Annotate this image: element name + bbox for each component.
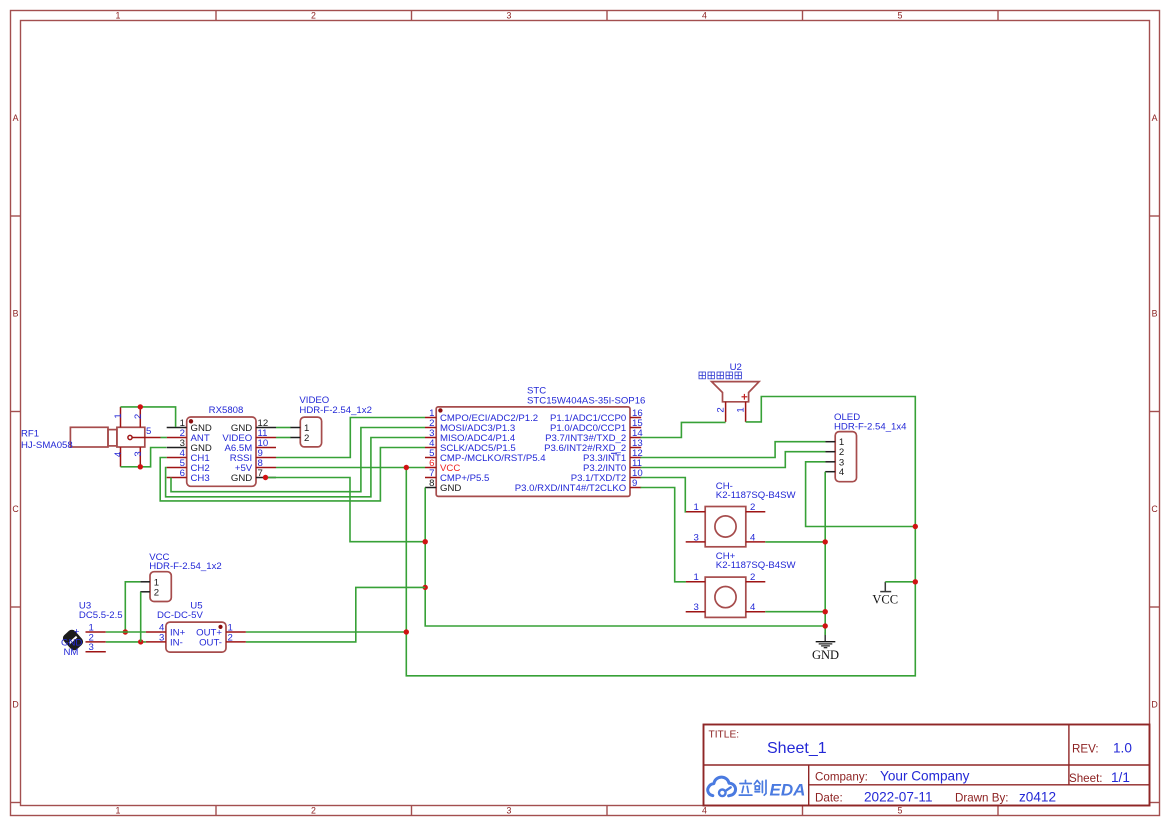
CH- pin 4 bbox=[746, 532, 766, 543]
wire net VCC U3 to U5 IN+ bbox=[106, 631, 146, 633]
svg-text:3: 3 bbox=[159, 632, 164, 643]
wire net CHUP from STC pin9 bbox=[641, 488, 686, 582]
wire net VCC symbol branch bbox=[885, 581, 915, 583]
svg-text:2: 2 bbox=[304, 433, 309, 444]
IC U1 STC15W404AS-35I-SOP16 bbox=[425, 386, 645, 497]
wire net GND VCC-HDR pin2 branch bbox=[140, 592, 142, 642]
RX5808 pin 4 CH1 bbox=[167, 448, 210, 464]
junction GND at 541 bbox=[423, 539, 428, 544]
svg-text:5: 5 bbox=[898, 11, 903, 21]
CH+ pin 1 bbox=[686, 572, 706, 583]
svg-text:4: 4 bbox=[702, 11, 707, 21]
svg-text:GND: GND bbox=[440, 483, 461, 494]
junction VCC OLED branch bbox=[913, 524, 918, 529]
svg-text:3: 3 bbox=[133, 451, 144, 456]
wire net GND branch to U5 OUT- bbox=[246, 587, 425, 642]
wire net BUZZER from STC pin14 bbox=[641, 422, 726, 437]
wire net VCC HDR pin1 branch bbox=[125, 582, 140, 632]
svg-text:DC5.5-2.5: DC5.5-2.5 bbox=[79, 610, 123, 621]
STC pin 7 bbox=[425, 468, 489, 484]
module U5 DC-DC-5V bbox=[146, 601, 246, 653]
wire net OLED2 from STC pin11 bbox=[641, 452, 826, 468]
svg-text:1: 1 bbox=[694, 572, 699, 583]
wire net GND RX5808 pin7 bbox=[266, 478, 426, 542]
svg-text:1: 1 bbox=[113, 413, 124, 418]
STC pin 3 bbox=[425, 428, 516, 444]
svg-text:GND: GND bbox=[812, 648, 839, 662]
svg-text:P3.0/RXD/INT4#/T2CLKO: P3.0/RXD/INT4#/T2CLKO bbox=[515, 483, 626, 494]
buzzer polarity + bbox=[742, 394, 748, 400]
wire net VCC main bbox=[276, 397, 915, 676]
wire net GND CH- pin4 bbox=[765, 541, 825, 543]
switch CH- K2-1187SQ-B4SW bbox=[686, 481, 797, 547]
title block bbox=[704, 725, 1150, 806]
svg-text:HDR-F-2.54_1x2: HDR-F-2.54_1x2 bbox=[149, 561, 222, 572]
svg-text:+: + bbox=[74, 626, 80, 637]
svg-text:A: A bbox=[13, 113, 19, 123]
wire net VCC U5 OUT+ bbox=[246, 631, 406, 633]
junction RF bottom bbox=[138, 464, 143, 469]
connector OLED HDR-F-2.54_1x4 bbox=[825, 412, 907, 482]
wire net GND-RF bottom bbox=[121, 448, 167, 467]
svg-text:RF1: RF1 bbox=[21, 429, 39, 440]
wire net VCC OLED pin3 branch bbox=[806, 462, 916, 527]
CH- pin 2 bbox=[746, 502, 766, 513]
U3 pin 3 NM bbox=[64, 642, 106, 658]
junction VCC at STC pin6 bbox=[404, 465, 409, 470]
RX5808 pin 11 VIDEO bbox=[222, 428, 276, 444]
svg-text:4: 4 bbox=[750, 532, 756, 543]
RX5808 pin 2 ANT bbox=[167, 428, 210, 444]
VIDEO pin 1 bbox=[290, 423, 309, 434]
VCC HDR pin 2 bbox=[140, 587, 159, 598]
STC pin 14 bbox=[545, 428, 643, 444]
junction GND at symbol bbox=[823, 623, 828, 628]
svg-text:STC15W404AS-35I-SOP16: STC15W404AS-35I-SOP16 bbox=[527, 396, 645, 407]
wire net CHDN from STC pin10 bbox=[641, 478, 686, 512]
STC pin 2 bbox=[425, 418, 515, 434]
svg-text:DC-DC-5V: DC-DC-5V bbox=[157, 610, 203, 621]
svg-text:5: 5 bbox=[146, 426, 151, 437]
RF1 pin 4 bbox=[113, 447, 124, 467]
wire net GND STC pin8 vertical bbox=[425, 488, 825, 627]
wire net GND CH+ pin4 bbox=[765, 611, 825, 613]
RF1 pin 3 bbox=[133, 447, 144, 467]
svg-text:2: 2 bbox=[311, 806, 316, 816]
RX5808 pin 12 GND bbox=[231, 418, 276, 434]
switch CH+ K2-1187SQ-B4SW bbox=[686, 551, 797, 617]
RX5808 pin 9 RSSI bbox=[230, 448, 276, 464]
junction GND U3 IN- bbox=[138, 639, 143, 644]
svg-text:4: 4 bbox=[113, 451, 124, 457]
svg-text:Your Company: Your Company bbox=[880, 769, 970, 784]
RX5808 pin 7 GND bbox=[231, 468, 276, 484]
OLED pin 1 bbox=[825, 437, 844, 448]
RX5808 pin 8 +5V bbox=[235, 458, 276, 474]
wire net GND video bbox=[276, 427, 291, 429]
CH- pin 1 bbox=[686, 502, 706, 513]
buzzer CJK name bbox=[699, 372, 741, 379]
svg-text:2: 2 bbox=[750, 572, 755, 583]
svg-text:2: 2 bbox=[133, 414, 144, 419]
svg-text:1: 1 bbox=[694, 502, 699, 513]
power jack U3 DC5.5-2.5 bbox=[61, 601, 123, 659]
CH+ pin 2 bbox=[746, 572, 766, 583]
svg-text:Date:: Date: bbox=[815, 792, 843, 805]
RX5808 pin 3 GND bbox=[167, 438, 212, 454]
STC pin 11 bbox=[583, 458, 642, 474]
svg-text:C: C bbox=[1151, 504, 1158, 514]
buzzer pin 2 bbox=[716, 402, 727, 422]
svg-text:9: 9 bbox=[632, 478, 637, 489]
ground symbol GND bbox=[812, 632, 839, 662]
svg-text:6: 6 bbox=[180, 468, 185, 479]
svg-text:D: D bbox=[1151, 700, 1157, 710]
junction VCC symbol branch bbox=[913, 579, 918, 584]
RX5808 pin 5 CH2 bbox=[167, 458, 210, 474]
OLED pin 2 bbox=[825, 447, 844, 458]
wire net ANT bbox=[161, 437, 167, 439]
U5 pin 1 OUT+ bbox=[196, 623, 246, 639]
svg-text:B: B bbox=[1152, 309, 1158, 319]
OLED pin 3 bbox=[825, 457, 844, 468]
svg-text:HDR-F-2.54_1x2: HDR-F-2.54_1x2 bbox=[299, 405, 372, 416]
svg-text:3: 3 bbox=[89, 642, 94, 653]
svg-text:D: D bbox=[12, 700, 18, 710]
VCC HDR pin 1 bbox=[140, 577, 159, 588]
svg-text:K2-1187SQ-B4SW: K2-1187SQ-B4SW bbox=[716, 490, 797, 501]
svg-text:z0412: z0412 bbox=[1019, 790, 1056, 805]
svg-text:3: 3 bbox=[694, 532, 699, 543]
svg-text:REV:: REV: bbox=[1072, 743, 1099, 756]
svg-text:1: 1 bbox=[116, 806, 121, 816]
OLED pin 4 bbox=[825, 467, 845, 478]
U5 pin 4 IN+ bbox=[146, 623, 186, 639]
wire net GND U3 to U5 IN- bbox=[106, 641, 146, 643]
svg-text:1: 1 bbox=[116, 11, 121, 21]
svg-text:Sheet:: Sheet: bbox=[1069, 772, 1103, 785]
svg-text:Drawn By:: Drawn By: bbox=[955, 792, 1008, 805]
U3 pin 2 GND bbox=[61, 632, 106, 648]
svg-text:4: 4 bbox=[702, 806, 707, 816]
svg-text:3: 3 bbox=[507, 11, 512, 21]
svg-text:HDR-F-2.54_1x4: HDR-F-2.54_1x4 bbox=[834, 421, 907, 432]
RF1 pin 5 bbox=[128, 426, 161, 440]
svg-text:IN-: IN- bbox=[170, 637, 183, 648]
RX5808 pin 1 GND bbox=[167, 418, 212, 434]
connector VIDEO HDR-F-2.54_1x2 bbox=[290, 395, 372, 447]
svg-text:2: 2 bbox=[750, 502, 755, 513]
svg-text:7: 7 bbox=[258, 468, 263, 479]
CH+ pin 3 bbox=[686, 602, 706, 613]
svg-text:C: C bbox=[12, 504, 19, 514]
svg-text:CH3: CH3 bbox=[191, 473, 210, 484]
svg-text:OUT-: OUT- bbox=[199, 637, 222, 648]
junction VCC HDR pin1 bbox=[123, 629, 128, 634]
wire net OLED1 from STC pin12 bbox=[641, 442, 826, 458]
svg-text:2022-07-11: 2022-07-11 bbox=[864, 790, 933, 805]
svg-text:3: 3 bbox=[507, 806, 512, 816]
buzzer U2 SMD bbox=[699, 362, 759, 422]
svg-text:NM: NM bbox=[64, 647, 79, 658]
RX5808 pin 10 A6.5M bbox=[224, 438, 276, 454]
svg-text:VCC: VCC bbox=[872, 592, 898, 606]
STC pin 16 bbox=[550, 408, 643, 424]
svg-text:Sheet_1: Sheet_1 bbox=[767, 740, 827, 757]
svg-text:1.0: 1.0 bbox=[1113, 741, 1132, 756]
svg-text:TITLE:: TITLE: bbox=[709, 730, 740, 741]
svg-text:2: 2 bbox=[228, 632, 233, 643]
wire net VIDEO bbox=[276, 437, 291, 439]
wire net RSSI to STC pin1 bbox=[276, 418, 425, 458]
svg-text:5: 5 bbox=[898, 806, 903, 816]
svg-text:B: B bbox=[13, 309, 19, 319]
junction GND CH- pin4 bbox=[823, 539, 828, 544]
STC pin 9 bbox=[515, 478, 641, 494]
svg-text:1: 1 bbox=[736, 407, 747, 412]
junction GND at 587 bbox=[423, 585, 428, 590]
svg-text:HJ-SMA058: HJ-SMA058 bbox=[21, 440, 73, 451]
RF1 pin 1 bbox=[113, 407, 124, 427]
buzzer pin 1 bbox=[736, 402, 747, 422]
wire net CH1 to STC pin4 bbox=[160, 448, 425, 501]
svg-text:Company:: Company: bbox=[815, 771, 868, 784]
junction RF top bbox=[138, 404, 143, 409]
svg-text:1/1: 1/1 bbox=[1111, 770, 1130, 785]
STC pin 13 bbox=[544, 438, 643, 454]
connector VCC HDR-F-2.54_1x2 bbox=[140, 552, 221, 602]
svg-text:4: 4 bbox=[750, 602, 756, 613]
module RX5808 receiver bbox=[167, 405, 276, 487]
wire net GND OLED pin4 vertical bbox=[824, 472, 826, 635]
junction GND CH+ pin4 bbox=[823, 609, 828, 614]
svg-text:2: 2 bbox=[154, 587, 159, 598]
svg-text:4: 4 bbox=[839, 467, 845, 478]
STC pin 8 GND bbox=[425, 478, 461, 494]
U5 pin 3 IN- bbox=[146, 632, 183, 648]
svg-text:GND: GND bbox=[231, 473, 252, 484]
STC pin 5 bbox=[425, 448, 546, 464]
RF1 pin 2 bbox=[133, 407, 144, 427]
wire net CH2 to STC pin3 bbox=[166, 438, 425, 497]
STC pin 6 VCC bbox=[425, 458, 460, 474]
svg-text:RX5808: RX5808 bbox=[209, 405, 244, 416]
junction VCC U5 OUT+ bbox=[404, 629, 409, 634]
STC pin 15 bbox=[550, 418, 643, 434]
CH- pin 3 bbox=[686, 532, 706, 543]
STC pin 4 bbox=[425, 438, 516, 454]
svg-text:K2-1187SQ-B4SW: K2-1187SQ-B4SW bbox=[716, 560, 797, 571]
svg-text:3: 3 bbox=[694, 602, 699, 613]
svg-text:8: 8 bbox=[429, 478, 434, 489]
power symbol VCC bbox=[872, 582, 898, 607]
CH+ pin 4 bbox=[746, 602, 766, 613]
VIDEO pin 2 bbox=[290, 433, 309, 444]
EasyEDA logo bbox=[708, 777, 806, 800]
STC pin 12 bbox=[583, 448, 643, 464]
connector RF1 HJ-SMA058 bbox=[21, 407, 161, 467]
wire net GND-RF top bbox=[121, 407, 176, 427]
U5 pin 2 OUT- bbox=[199, 632, 246, 648]
wire net CH3 to STC pin2 bbox=[171, 428, 425, 492]
svg-text:2: 2 bbox=[716, 407, 727, 412]
STC pin 10 bbox=[571, 468, 643, 484]
svg-text:EDA: EDA bbox=[770, 781, 806, 800]
svg-text:U2: U2 bbox=[730, 362, 742, 373]
svg-text:A: A bbox=[1152, 113, 1158, 123]
svg-text:2: 2 bbox=[311, 11, 316, 21]
U3 pin 1 + bbox=[74, 623, 106, 638]
RX5808 pin 6 CH3 bbox=[167, 468, 210, 484]
junction GND RX5808 pin7 bbox=[263, 475, 268, 480]
STC pin 1 bbox=[425, 408, 538, 424]
